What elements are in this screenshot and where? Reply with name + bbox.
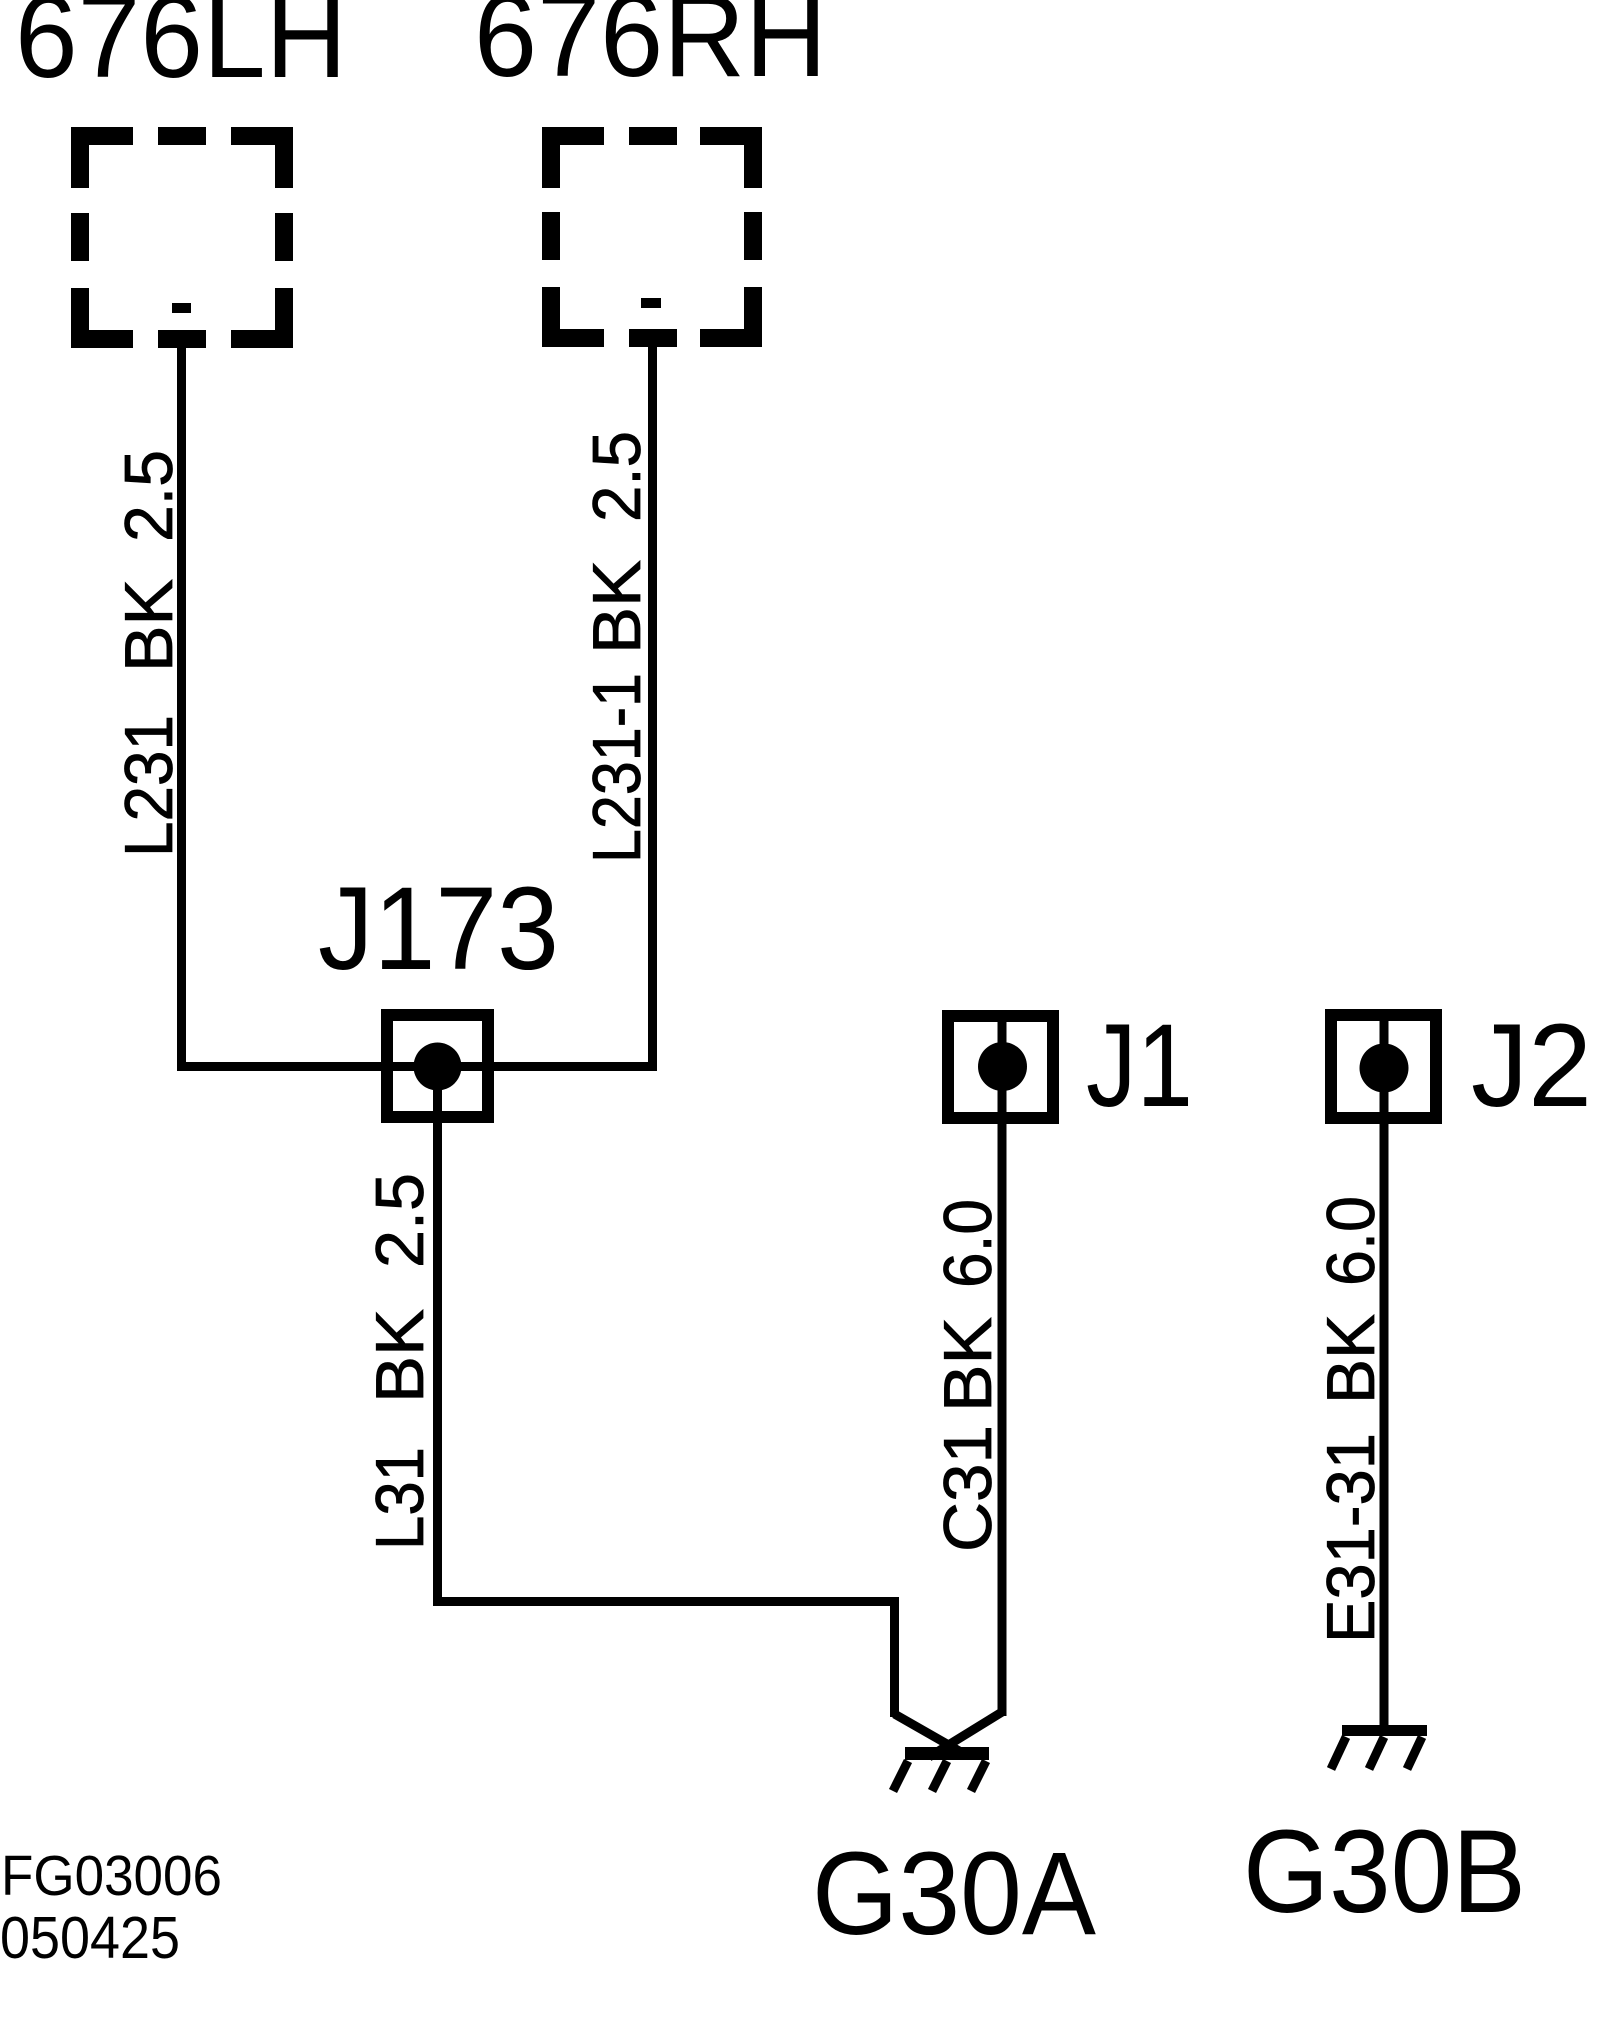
svg-text:2.5: 2.5 <box>362 1173 438 1268</box>
svg-text:BK: BK <box>579 560 655 654</box>
svg-text:2.5: 2.5 <box>111 450 187 542</box>
svg-text:BK: BK <box>111 579 187 672</box>
svg-text:G30B: G30B <box>1243 1806 1526 1938</box>
svg-text:676RH: 676RH <box>474 0 827 102</box>
svg-text:6.0: 6.0 <box>1313 1196 1389 1286</box>
svg-text:L31: L31 <box>362 1447 438 1550</box>
svg-text:C31: C31 <box>930 1425 1006 1552</box>
svg-text:L231: L231 <box>111 715 187 857</box>
svg-text:2.5: 2.5 <box>579 431 655 522</box>
svg-text:FG03006: FG03006 <box>1 1844 222 1908</box>
svg-text:676LH: 676LH <box>15 0 347 103</box>
svg-text:G30A: G30A <box>812 1828 1096 1960</box>
svg-text:BK: BK <box>362 1309 438 1403</box>
svg-text:E31-31: E31-31 <box>1313 1433 1389 1643</box>
svg-text:J1: J1 <box>1086 1000 1193 1132</box>
svg-text:050425: 050425 <box>0 1905 180 1971</box>
svg-text:BK: BK <box>930 1317 1006 1412</box>
svg-text:J2: J2 <box>1471 1000 1592 1132</box>
svg-text:BK: BK <box>1313 1314 1389 1404</box>
svg-text:6.0: 6.0 <box>930 1199 1006 1288</box>
svg-text:L231-1: L231-1 <box>579 673 655 863</box>
svg-text:J173: J173 <box>318 863 559 995</box>
